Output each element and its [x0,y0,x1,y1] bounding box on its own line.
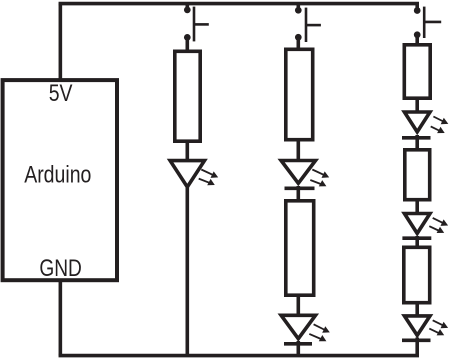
LED D4 [402,112,448,138]
wire: R3 to LED D3 [296,295,300,317]
LED D3 [281,315,330,344]
wire: D6 to ground rail [415,338,419,356]
junction dot: S2 bottom terminal [295,34,302,41]
junction dot: S2 top terminal [295,7,302,14]
wire: R6 to LED D6 [415,303,419,317]
wire: R5 to LED D5 [415,200,419,215]
wire: D1 to ground rail [186,185,190,356]
LED D5 [402,214,448,239]
svg-text:5V: 5V [49,81,73,107]
pushbutton S2 [306,8,321,42]
resistor R4 [404,45,430,98]
wire: S2 to resistor R2 [296,37,300,49]
wire: D2 to resistor R3 [296,186,300,201]
wire: top rail to pushbutton S1 [186,4,190,12]
5V rail (top wire) [59,2,419,6]
pushbutton S1 [194,7,209,42]
junction dot: S3 top terminal [414,7,421,14]
wire: D4 to resistor R5 [415,135,419,150]
wire: 5V pin to top rail [59,4,63,80]
LED D2 [281,161,329,189]
resistor R2 [286,49,313,139]
svg-text:Arduino: Arduino [24,161,91,188]
junction dot: S1 bottom terminal [184,34,191,41]
wire: S1 to resistor R1 [186,37,190,51]
wire: R4 to LED D4 [415,98,419,113]
junction dot: S3 bottom terminal [414,31,421,38]
LED D6 [402,316,448,340]
LED D1 [170,161,218,187]
svg-text:GND: GND [39,256,82,282]
wire: top rail to pushbutton S3 [415,4,419,12]
wire: S3 to resistor R4 [415,35,419,45]
wire: D3 to ground rail [296,341,300,356]
resistor R1 [175,51,200,141]
wire: D5 to resistor R6 [415,236,419,247]
pushbutton S3 [424,7,441,38]
wire: GND pin to ground rail [59,280,63,356]
resistor R5 [405,150,430,200]
resistor R6 [404,247,430,302]
wire: R1 to LED D1 [186,141,190,162]
ground rail (bottom wire) [59,354,419,358]
junction dot: S1 top terminal [184,7,191,14]
wire: R2 to LED D2 [296,140,300,162]
resistor R3 [286,201,314,295]
wire: top rail to pushbutton S2 [296,4,300,12]
Arduino block [3,80,117,280]
